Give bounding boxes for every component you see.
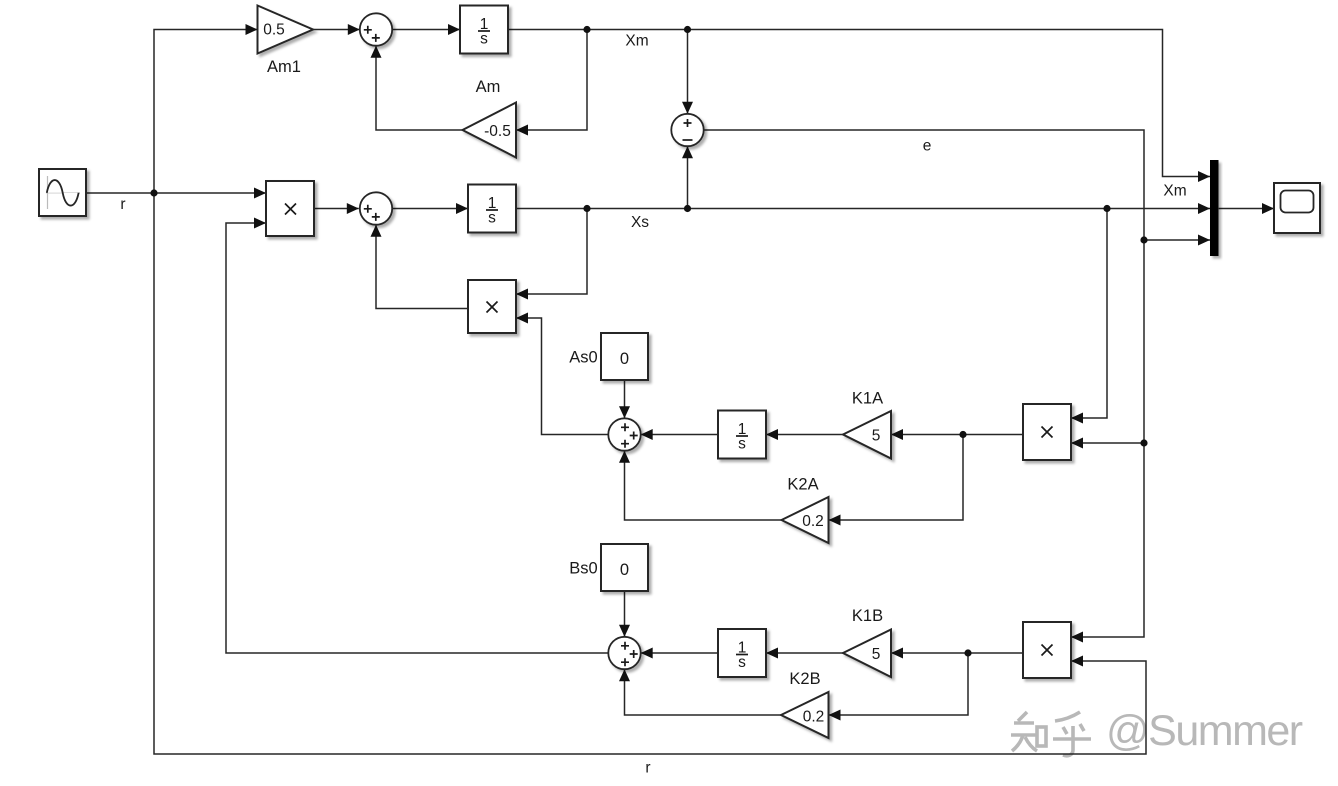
wire S1 to integrator I1 <box>392 29 460 31</box>
sine wave source <box>39 169 86 216</box>
arrow into P3 in2 <box>1071 438 1083 449</box>
svg-text:Am: Am <box>476 78 501 96</box>
wire S3 to integrator I2 <box>392 208 468 210</box>
integrator I2 <box>468 185 516 233</box>
node Xs b <box>684 205 691 212</box>
node e mux <box>1140 236 1147 243</box>
arrow into mux in1 <box>1198 171 1210 182</box>
plus signs sum S4 <box>621 423 629 431</box>
svg-text:K1A: K1A <box>852 390 883 408</box>
gain Am <box>463 103 517 158</box>
wire I4 out to S5 right <box>641 652 718 654</box>
arrow into S5 top <box>619 625 630 637</box>
svg-text:0: 0 <box>620 350 629 368</box>
node Xm a <box>583 26 590 33</box>
arrow into P4 in1 <box>1071 632 1083 643</box>
product P3 <box>1023 404 1071 460</box>
wire e to product P4 in1 <box>1071 443 1144 637</box>
arrow into S5 bottom <box>619 669 630 681</box>
cross product P3 <box>1042 427 1053 438</box>
product P4 <box>1023 622 1071 678</box>
wire product P1 to sum S3 <box>314 208 359 210</box>
gain K1B <box>843 630 891 678</box>
arrow into mux in2 <box>1198 203 1210 214</box>
svg-text:s: s <box>738 654 746 671</box>
sum S1 <box>360 13 392 45</box>
arrow into K1A <box>891 429 903 440</box>
arrow into K1B <box>891 648 903 659</box>
arrow into mux in3 <box>1198 235 1210 246</box>
fraction bar I3 <box>736 435 748 437</box>
svg-text:Xm: Xm <box>1163 183 1186 200</box>
arrow into S4 bottom <box>619 451 630 463</box>
integrator I1 <box>460 6 508 54</box>
watermark zhihu logo hanzi highlight <box>1009 710 1089 754</box>
node Xs c <box>1103 205 1110 212</box>
wire node to K2A <box>829 435 964 521</box>
wire Xs to product P3 in1 <box>1071 209 1107 419</box>
node r branch <box>150 189 157 196</box>
plus minus compare sum S2 <box>684 119 692 127</box>
svg-text:Bs0: Bs0 <box>569 560 597 578</box>
svg-text:s: s <box>738 436 746 453</box>
arrow into scope <box>1262 203 1274 214</box>
arrow into S1 bottom <box>371 46 382 58</box>
gain K2A <box>782 497 829 543</box>
wire Xm feedback to Am <box>516 30 587 131</box>
wire sum S5 out to P1 in2 <box>226 223 608 653</box>
mux <box>1210 160 1219 256</box>
arrow into S3 left <box>347 203 359 214</box>
wire e to product P3 in2 <box>1071 442 1144 444</box>
svg-text:Xm: Xm <box>625 33 648 50</box>
node P3 out <box>959 431 966 438</box>
wire Xs line to mux in2 <box>516 208 1210 210</box>
wire K1B out to I4 <box>766 652 843 654</box>
wire Xm into compare sum top <box>687 30 689 114</box>
wire r down bottom to product P4 in2 <box>154 193 1146 754</box>
svg-text:e: e <box>923 138 932 155</box>
arrow into P2 in2 <box>516 313 528 324</box>
product P1 <box>266 181 314 236</box>
constant Bs0 <box>601 544 648 591</box>
node Xs a <box>583 205 590 212</box>
svg-text:Am1: Am1 <box>267 58 301 76</box>
arrow into P2 in1 <box>516 289 528 300</box>
svg-text:Xs: Xs <box>631 214 649 231</box>
svg-text:5: 5 <box>872 428 881 445</box>
gain K2B <box>781 692 829 738</box>
plus signs sum S5 <box>621 642 629 650</box>
wire K1A out to I3 <box>766 434 843 436</box>
sum S3 <box>360 192 392 224</box>
wire sum S4 out to P2 in2 <box>516 318 608 435</box>
arrow into P3 in1 <box>1071 413 1083 424</box>
svg-text:s: s <box>488 210 496 227</box>
plus signs sum S3 <box>364 205 372 213</box>
wire K2B out to S5 bottom <box>625 669 782 715</box>
arrow into K2B <box>829 710 841 721</box>
svg-text:0.2: 0.2 <box>802 513 824 530</box>
plus signs sum S1 <box>364 26 372 34</box>
wire P4 out to K1B <box>891 652 1023 654</box>
wire As0 to S4 top <box>624 380 626 418</box>
wire P2 out to S3 bottom <box>376 225 468 309</box>
fraction bar I1 <box>478 30 490 32</box>
svg-text:s: s <box>480 31 488 48</box>
svg-text:0.5: 0.5 <box>263 22 285 39</box>
gain K1A <box>843 411 891 459</box>
arrow into Am1 <box>246 24 258 35</box>
arrow into K2A <box>829 515 841 526</box>
arrow into S5 right <box>641 648 653 659</box>
wire e down <box>1143 240 1145 443</box>
wire Xm line to mux in1 <box>508 30 1210 177</box>
sum S5 <box>608 637 640 669</box>
svg-text:r: r <box>120 196 125 213</box>
arrow into Am <box>516 125 528 136</box>
gain Am1 <box>258 6 314 54</box>
wire sine out r <box>86 192 266 194</box>
wire e line to mux in3 <box>704 130 1210 240</box>
svg-text:K2B: K2B <box>789 670 820 688</box>
cross product P2 <box>487 302 498 313</box>
arrow into compare sum bottom <box>682 146 693 158</box>
product P2 <box>468 280 516 333</box>
wire Xs into compare sum bottom <box>687 146 689 208</box>
arrowheads <box>246 24 1275 721</box>
watermark zhihu logo hanzi <box>1011 712 1091 756</box>
wire Bs0 to S5 top <box>624 591 626 637</box>
wire P3 out to K1A <box>891 434 1023 436</box>
arrow into I4 <box>766 648 778 659</box>
svg-text:5: 5 <box>872 646 881 663</box>
integrator I4 <box>718 629 766 677</box>
arrow into P1 in2 <box>254 218 266 229</box>
integrator I3 <box>718 411 766 459</box>
fraction bar I4 <box>736 654 748 656</box>
arrow into S3 bottom <box>371 225 382 237</box>
svg-text:@Summer: @Summer <box>1106 707 1303 755</box>
cross product P4 <box>1042 645 1053 656</box>
node Xm b <box>684 26 691 33</box>
wire mux out to scope <box>1219 208 1274 210</box>
wire I3 out to S4 right <box>641 434 718 436</box>
svg-text:K2A: K2A <box>787 476 818 494</box>
svg-text:r: r <box>645 760 650 777</box>
arrow into S4 top <box>619 406 630 418</box>
arrow into P1 in1 <box>254 188 266 199</box>
arrow into S4 right <box>641 429 653 440</box>
wire node to K2B <box>829 653 969 715</box>
arrow into I2 <box>456 203 468 214</box>
node e products <box>1140 439 1147 446</box>
svg-text:K1B: K1B <box>852 607 883 625</box>
sum S4 <box>608 418 640 450</box>
arrow into I1 <box>448 24 460 35</box>
svg-text:0.2: 0.2 <box>803 709 825 726</box>
compare sum S2 <box>671 114 703 146</box>
svg-text:0: 0 <box>620 561 629 579</box>
wire r up to Am1 <box>154 30 258 194</box>
svg-text:As0: As0 <box>569 349 597 367</box>
node P4 out <box>964 649 971 656</box>
wire Am out to S1 bottom <box>376 46 463 130</box>
wire Xs to product P2 in1 <box>516 209 587 295</box>
arrow into I3 <box>766 429 778 440</box>
constant As0 <box>601 333 648 380</box>
cross product P1 <box>285 204 296 215</box>
wire Am1 to sum S1 <box>313 29 360 31</box>
arrow into P4 in2 <box>1071 656 1083 667</box>
scope <box>1274 183 1320 233</box>
wire K2A out to S4 bottom <box>625 451 782 520</box>
arrow into S1 left <box>348 24 360 35</box>
svg-text:-0.5: -0.5 <box>484 123 511 140</box>
block interior marks <box>285 26 1053 666</box>
arrow into compare sum top <box>682 102 693 114</box>
fraction bar I2 <box>486 209 498 211</box>
